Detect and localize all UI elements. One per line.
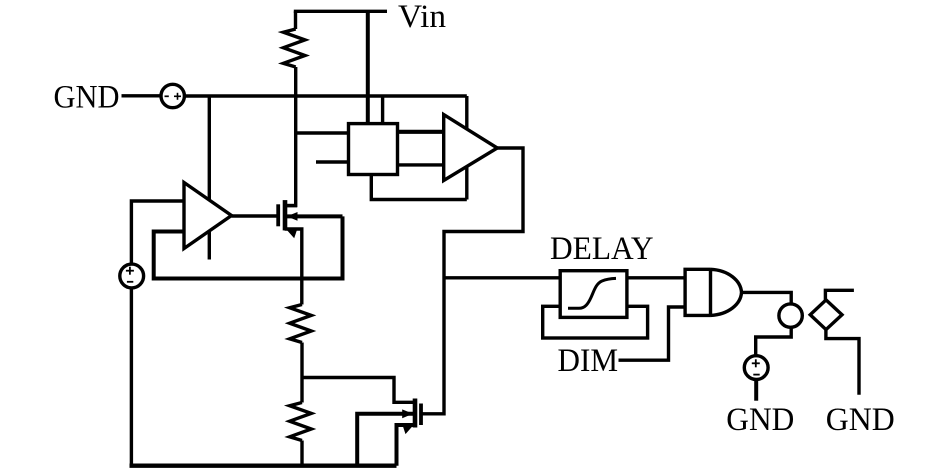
- input block U1: [349, 124, 398, 175]
- svg-text:DELAY: DELAY: [550, 231, 654, 267]
- wire: V3 to GND: [754, 379, 758, 400]
- op-amp U3 (buffer): [184, 183, 232, 249]
- wire: M1 source lead and drop to divider: [285, 229, 302, 305]
- wire: divider tap to M2 drain: [302, 378, 415, 403]
- wire: block U1 feedback bottom loop: [371, 175, 467, 200]
- wire: block U1 upper-left stub: [296, 131, 349, 134]
- svg-text:DIM: DIM: [558, 343, 619, 379]
- svg-text:Vin: Vin: [398, 0, 446, 35]
- delay block with threshold curve: [560, 271, 627, 318]
- wire: R1 to M1 drain: [285, 67, 296, 206]
- wire: AND output to pad circle: [742, 292, 792, 304]
- pad circle after AND gate: [779, 304, 802, 327]
- wire: buffer + input from V2: [131, 201, 184, 264]
- wire: M2 bulk lead to bottom rail: [357, 414, 415, 466]
- wire: Vin top horizontal: [294, 10, 387, 13]
- wire: R2 to R3: [300, 343, 303, 403]
- svg-text:GND: GND: [826, 402, 895, 438]
- wire: V2 to bottom rail: [130, 288, 133, 466]
- diamond pad: [810, 300, 842, 330]
- wire: comparator output loop down to M2 gate: [421, 148, 523, 414]
- resistor R2: [290, 305, 312, 343]
- wire: Vin vertical to block U1: [366, 11, 370, 123]
- transistor M2: [402, 399, 421, 435]
- wire: diamond top stub: [825, 290, 854, 300]
- op-amp U2 (comparator): [444, 115, 498, 181]
- wire: M1 bulk lead: [285, 214, 343, 218]
- wire: tap to DELAY block: [444, 276, 560, 279]
- resistor R3: [290, 403, 312, 441]
- transistor M1: [278, 200, 297, 238]
- delay feedback box: [543, 306, 648, 338]
- resistor R1: [283, 29, 305, 67]
- wire: DIM to AND gate: [619, 307, 686, 360]
- AND gate: [685, 269, 741, 315]
- wire: main horizontal rail: [184, 94, 466, 97]
- voltage source V3: [744, 356, 768, 380]
- wire: block U1 lower-left stub: [316, 160, 349, 163]
- wire: block U1 to comparator upper: [398, 130, 444, 134]
- voltage source V1 (GND): [161, 84, 184, 107]
- wire: pad circle to V3: [756, 327, 792, 356]
- svg-text:GND: GND: [726, 402, 794, 438]
- wire: GND lead: [122, 94, 162, 97]
- wire: bottom rail: [130, 464, 397, 468]
- wire: M2 source lead to bottom rail: [397, 425, 416, 466]
- wire: diamond bottom to GND: [826, 330, 859, 395]
- wire: buffer supply vertical (under op-amp U3): [208, 96, 211, 260]
- wire: DELAY out to AND gate: [627, 276, 685, 279]
- wire: comparator supply vertical (under op-amp U2): [465, 96, 468, 200]
- voltage source V2: [120, 264, 144, 288]
- wire: block U1 to comparator lower: [398, 163, 444, 166]
- svg-text:GND: GND: [54, 80, 120, 116]
- wire: buffer - input feedback loop: [154, 216, 343, 278]
- wire: R3 to bottom rail: [300, 441, 303, 466]
- wire: buffer output to M1 gate: [232, 214, 279, 217]
- wire: rail stub down to block U1: [381, 96, 384, 124]
